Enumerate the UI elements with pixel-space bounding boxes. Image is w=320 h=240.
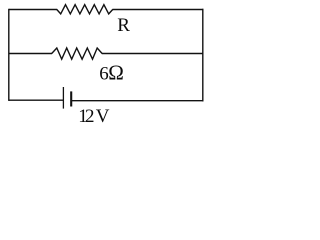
wire middle branch right segment: [102, 53, 203, 55]
wire right side: [202, 9, 204, 102]
wire top side left segment: [9, 9, 57, 11]
svg-text:R: R: [117, 15, 130, 36]
wire bottom right segment: [71, 100, 203, 102]
wire top side right segment: [112, 9, 203, 11]
wire bottom left segment: [9, 99, 64, 101]
wire middle branch left segment: [9, 53, 52, 55]
svg-text:V: V: [96, 106, 110, 127]
svg-text:2: 2: [85, 106, 95, 127]
battery 12V long plate: [62, 87, 64, 109]
resistor R zigzag: [57, 5, 113, 14]
svg-text:Ω: Ω: [108, 60, 124, 84]
wire left side: [8, 9, 10, 101]
resistor 6ohm zigzag: [52, 48, 102, 59]
battery 12V short plate: [70, 91, 72, 106]
